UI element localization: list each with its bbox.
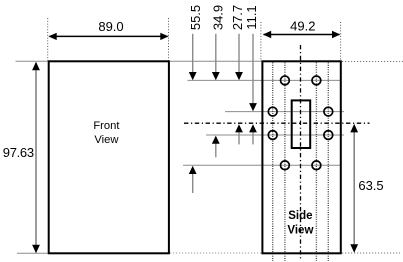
hole bottom-left	[281, 161, 290, 170]
svg-text:49.2: 49.2	[290, 18, 315, 33]
wire: top extension line between views	[170, 60, 263, 62]
hole bottom-right	[312, 161, 321, 170]
svg-text:Front: Front	[93, 120, 120, 132]
wire: extension line for 49.2 right	[340, 22, 342, 61]
wire: hidden line column 1	[272, 63, 274, 262]
hole mid-right lower	[324, 131, 333, 140]
side view outline	[262, 61, 340, 253]
node: vertical centerline of side view	[300, 45, 302, 260]
dimension 34.9 up leader	[215, 144, 217, 158]
dimension 11.1 up leader	[252, 132, 254, 144]
wire: extension line for 89.0 left	[47, 18, 49, 61]
front view outline	[49, 61, 169, 253]
dimension 34.9 down leader	[215, 34, 217, 73]
slot in side view	[292, 100, 311, 148]
svg-text:89.0: 89.0	[98, 19, 123, 34]
wire: hidden line column 4	[327, 63, 329, 262]
wire: hole row line 2	[225, 111, 344, 113]
svg-text:97.63: 97.63	[3, 145, 34, 160]
wire: hole row line 4	[183, 164, 342, 166]
wire: bottom extension line left of front view	[17, 252, 48, 254]
dimension 97.63 line	[35, 63, 37, 252]
wire: extension line for 89.0 right	[168, 18, 170, 61]
svg-text:View: View	[287, 225, 313, 237]
wire: top extension dotted right of side view	[342, 61, 403, 63]
dimension 27.7 down leader	[238, 34, 240, 73]
wire: hole row line 3	[206, 134, 344, 136]
wire: hidden line column 2	[284, 63, 286, 262]
svg-text:63.5: 63.5	[358, 178, 383, 193]
hole mid-left upper	[268, 107, 277, 116]
svg-text:11.1: 11.1	[244, 5, 259, 29]
wire: bottom extension dotted right of side view	[342, 252, 400, 254]
wire: hidden line column 3	[315, 63, 317, 262]
svg-text:55.5: 55.5	[188, 5, 203, 30]
dimension 55.5 down leader	[192, 34, 194, 73]
hole mid-right upper	[324, 107, 333, 116]
wire: top extension line left of front view	[16, 60, 48, 62]
dimension 55.5 up leader	[192, 174, 194, 194]
dimension 27.7 up leader	[238, 132, 240, 144]
node: horizontal centerline of side view	[184, 122, 370, 124]
svg-text:Side: Side	[288, 210, 312, 222]
svg-text:27.7: 27.7	[230, 5, 245, 30]
dimension 11.1 down leader	[252, 34, 254, 104]
hole top-left	[281, 76, 290, 85]
svg-text:34.9: 34.9	[210, 5, 225, 30]
hole top-right	[312, 76, 321, 85]
wire: bottom extension dotted between views	[170, 252, 262, 254]
dimension 89.0 line	[50, 35, 168, 37]
wire: extension line for 49.2 left	[260, 22, 262, 61]
wire: hole row line 1	[188, 79, 342, 81]
dimension 63.5 line	[353, 126, 355, 251]
hole mid-left lower	[268, 131, 277, 140]
svg-text:View: View	[94, 134, 119, 146]
dimension 49.2 line	[264, 34, 340, 36]
